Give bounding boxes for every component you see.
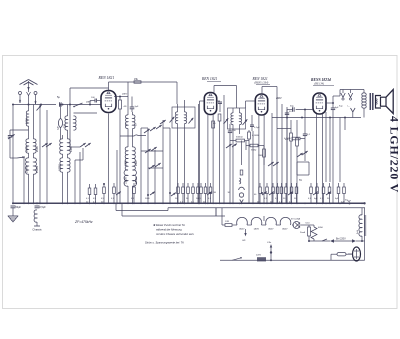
svg-text:2000: 2000 bbox=[135, 160, 138, 166]
IF transformer T2 primary bbox=[175, 104, 177, 203]
label U10 bbox=[306, 223, 311, 225]
IF transformer T2 frame bbox=[172, 107, 195, 128]
terminal A1 bbox=[19, 92, 22, 104]
svg-text:1000: 1000 bbox=[25, 146, 29, 152]
switch TA1 bbox=[226, 144, 232, 148]
heater return wire bbox=[168, 208, 365, 211]
wire x253 bbox=[252, 131, 254, 203]
svg-text:30: 30 bbox=[214, 192, 217, 194]
component cluster M bbox=[308, 183, 318, 203]
voltage selector bbox=[308, 227, 330, 242]
wire x117 bbox=[116, 150, 118, 203]
wire to V1 grid bbox=[63, 101, 101, 105]
svg-text:0,1: 0,1 bbox=[307, 134, 311, 136]
svg-text:15000: 15000 bbox=[35, 165, 39, 173]
phone jack2 bbox=[348, 90, 353, 108]
wire B+ rail bbox=[272, 117, 361, 119]
svg-text:250: 250 bbox=[64, 123, 67, 128]
tube V3 REN 1821 bbox=[255, 94, 267, 115]
svg-text:240V: 240V bbox=[85, 101, 92, 104]
note line 2 bbox=[156, 228, 182, 232]
svg-text:0,1: 0,1 bbox=[320, 198, 324, 200]
svg-text:10000: 10000 bbox=[59, 164, 62, 171]
arrow up mid bbox=[267, 242, 272, 261]
svg-text:50: 50 bbox=[289, 111, 292, 113]
wire y135 wiggle bbox=[120, 135, 146, 136]
svg-text:220V: 220V bbox=[256, 255, 262, 257]
vertical x155 bbox=[154, 150, 156, 203]
title 4 LGH/220 V bbox=[388, 116, 400, 193]
svg-text:0,1: 0,1 bbox=[275, 198, 279, 200]
note line 4 bbox=[145, 241, 184, 245]
resistor 300 bbox=[246, 141, 264, 152]
fuse oval bbox=[331, 253, 353, 261]
barretter lamp bbox=[348, 247, 361, 261]
page border frame bbox=[3, 56, 398, 309]
component cluster J bbox=[254, 183, 279, 204]
coil column2 bbox=[34, 105, 40, 204]
wire mid horizontal bbox=[141, 151, 163, 168]
component cluster C bbox=[86, 184, 97, 204]
svg-text:10000: 10000 bbox=[25, 165, 29, 173]
vertical x141 bbox=[140, 128, 142, 203]
resistor Pendl bbox=[300, 225, 311, 241]
vertical x47 bbox=[46, 110, 48, 203]
coil pair antenna lower bbox=[25, 139, 29, 203]
V3 top cap wire bbox=[262, 87, 277, 111]
coil column x67 bbox=[68, 105, 98, 204]
svg-text:1A/4V: 1A/4V bbox=[282, 228, 288, 231]
plug Bei220V bbox=[330, 238, 365, 243]
switch S4 bbox=[75, 143, 91, 203]
resistor 5000 bbox=[230, 137, 249, 148]
trimmer arrow T3a bbox=[224, 118, 229, 124]
V2 pin drops bbox=[208, 114, 215, 203]
IF transformer T3 secondary bbox=[240, 108, 242, 134]
cap 6uF bbox=[331, 103, 339, 203]
output top wire bbox=[333, 90, 364, 97]
V1 plate feedback box bbox=[128, 82, 177, 104]
series capacitor 500 bbox=[57, 95, 61, 107]
V3 cathode parts bbox=[250, 115, 260, 131]
mains switch bbox=[232, 257, 242, 260]
wire x224 bbox=[223, 95, 225, 203]
svg-text:L₂: L₂ bbox=[348, 106, 350, 108]
component cluster D bbox=[101, 183, 155, 204]
V4 plate wire bbox=[326, 96, 334, 104]
IF transformer T3 frame bbox=[228, 108, 246, 129]
ground bus bbox=[13, 202, 366, 204]
svg-text:12Ω: 12Ω bbox=[225, 221, 229, 223]
label V3 bbox=[252, 77, 271, 85]
wire x330 bbox=[329, 118, 331, 183]
cap 50 right bbox=[285, 107, 292, 203]
label V4 bbox=[311, 78, 334, 86]
coil 250 pair bbox=[59, 105, 68, 204]
IF transformer T3 primary bbox=[231, 108, 233, 203]
svg-text:während der Messung: während der Messung bbox=[156, 228, 182, 232]
cap 100 V2 bbox=[228, 124, 237, 203]
feedback box top-left bbox=[69, 88, 109, 147]
resistor 400 bbox=[285, 137, 305, 141]
svg-text:0,1: 0,1 bbox=[208, 198, 212, 200]
svg-text:1MΩ: 1MΩ bbox=[258, 155, 263, 157]
svg-text:10000: 10000 bbox=[125, 177, 128, 184]
osc coil pair bbox=[125, 97, 137, 137]
V1 cathode wire bbox=[108, 114, 110, 204]
vertical x40 bbox=[39, 105, 41, 204]
svg-text:0,1: 0,1 bbox=[86, 198, 90, 200]
heater wire segment bbox=[116, 203, 225, 216]
svg-text:Chassis: Chassis bbox=[32, 228, 42, 232]
svg-text:(RE 134): (RE 134) bbox=[314, 83, 324, 86]
wave switch S2 bbox=[17, 156, 25, 203]
capacitor 7uF V1 bbox=[130, 97, 139, 113]
component cluster G bbox=[198, 183, 212, 204]
vertical x148 bbox=[141, 128, 148, 203]
resistor 0.1M V3 bbox=[248, 130, 259, 203]
pickup box bbox=[297, 162, 309, 182]
note line 3 bbox=[156, 232, 195, 236]
cap 50uF ground bbox=[11, 202, 22, 214]
svg-text:5000: 5000 bbox=[145, 198, 150, 200]
loudspeaker horn bbox=[386, 90, 393, 114]
cap 0.1 top bbox=[303, 130, 311, 142]
svg-text:5μ: 5μ bbox=[57, 95, 60, 99]
svg-text:REN 1821: REN 1821 bbox=[252, 77, 268, 81]
wire antenna row bbox=[12, 104, 64, 106]
tube V1 REN 1821 bbox=[101, 91, 116, 113]
jack feed wire bbox=[241, 141, 243, 166]
coil 1000 antenna bbox=[25, 95, 29, 139]
component cluster E bbox=[169, 183, 199, 204]
switch U/Fz bbox=[242, 216, 264, 242]
V3 grid wire bbox=[246, 101, 256, 108]
terminal E bbox=[34, 92, 37, 105]
V4 pin drops bbox=[317, 114, 323, 203]
svg-text:1μF: 1μF bbox=[58, 126, 60, 130]
bus junction dots bbox=[12, 202, 363, 204]
wire left leg bbox=[12, 105, 14, 204]
field coil choke bbox=[357, 208, 366, 242]
svg-text:REN 1821: REN 1821 bbox=[201, 77, 217, 81]
svg-text:2000: 2000 bbox=[70, 146, 73, 152]
svg-text:U/F: U/F bbox=[242, 240, 246, 242]
switch arrows mid bbox=[268, 162, 279, 166]
switch TA2 bbox=[297, 151, 308, 157]
V4 grid wire bbox=[287, 106, 313, 204]
label REN 1821 V1 bbox=[98, 76, 115, 80]
output transformer winding bbox=[362, 93, 366, 118]
svg-text:4μF: 4μF bbox=[314, 198, 318, 200]
svg-text:(RENS 1264): (RENS 1264) bbox=[254, 82, 268, 85]
output transformer core bbox=[370, 93, 373, 110]
svg-text:50μ: 50μ bbox=[290, 106, 294, 108]
note line 1 bbox=[153, 223, 185, 227]
svg-text:20000: 20000 bbox=[135, 177, 138, 184]
wire x198 bbox=[198, 104, 200, 203]
vertical x199 bbox=[200, 101, 205, 203]
resistor 12ohm bbox=[222, 221, 237, 226]
band switch cluster bbox=[144, 125, 162, 169]
svg-text:1A/4V: 1A/4V bbox=[239, 228, 245, 231]
svg-text:L/Fz: L/Fz bbox=[267, 242, 271, 244]
component cluster O bbox=[335, 183, 345, 204]
phono jack TA bbox=[239, 170, 245, 203]
wire 200V bbox=[275, 97, 291, 203]
IF transformer T2 secondary bbox=[185, 100, 187, 203]
component cluster K bbox=[279, 183, 298, 204]
svg-text:300Ω: 300Ω bbox=[251, 150, 257, 152]
phone jack1 bbox=[339, 90, 345, 108]
resistor R1 0.1M bbox=[119, 97, 127, 204]
jack Y bbox=[351, 108, 356, 118]
V2 top cap wire bbox=[214, 86, 237, 109]
loudspeaker magnet bbox=[376, 96, 382, 109]
svg-text:RENS 1823d: RENS 1823d bbox=[311, 78, 331, 82]
svg-text:50: 50 bbox=[283, 198, 286, 200]
label REN 1821 V2 bbox=[201, 77, 221, 82]
vertical x163 bbox=[160, 120, 166, 203]
trimmer arrow T2b bbox=[189, 118, 194, 124]
vertical x170 bbox=[163, 128, 170, 203]
mains wire bottom bbox=[220, 259, 365, 261]
ground symbol bbox=[8, 214, 18, 222]
svg-text:4 LGH/220 V: 4 LGH/220 V bbox=[388, 116, 400, 193]
resistor x297 bbox=[296, 120, 299, 203]
trimmer arrow T2a bbox=[170, 117, 175, 123]
filament chain bbox=[237, 217, 291, 230]
variable capacitor C1 bbox=[8, 130, 29, 158]
tube V2 REN 1821 bbox=[204, 93, 216, 115]
label Chassis bbox=[32, 228, 42, 232]
svg-text:5000Ω: 5000Ω bbox=[236, 137, 243, 139]
resistor zigzag bbox=[309, 225, 317, 241]
svg-text:40: 40 bbox=[254, 194, 257, 196]
V3 pin drops bbox=[259, 115, 264, 204]
svg-text:4Ω: 4Ω bbox=[124, 106, 127, 108]
wire v3 right2 bbox=[276, 110, 278, 203]
switch S1 bbox=[37, 105, 42, 111]
component cluster N bbox=[320, 183, 331, 203]
right vertical bbox=[364, 208, 366, 261]
svg-text:REN 1821: REN 1821 bbox=[98, 76, 115, 80]
resistor 1M V3 bbox=[258, 146, 265, 204]
V4 grid divider bbox=[304, 110, 306, 162]
svg-text:mit dem Chassis verbunden sein: mit dem Chassis verbunden sein. bbox=[156, 232, 195, 236]
terminal A2 bbox=[27, 92, 31, 96]
wire x340 bbox=[339, 118, 341, 183]
resistor 0.1M right bbox=[284, 120, 292, 203]
tubular cap 1uF bbox=[58, 104, 63, 140]
tube V4 RENS 1823d bbox=[313, 93, 326, 114]
svg-text:Ström u. Spannungswerte bei:: Ström u. Spannungswerte bei: TA bbox=[145, 241, 184, 245]
wire v3 right1 bbox=[271, 113, 273, 203]
svg-text:U10: U10 bbox=[306, 223, 311, 225]
resistor 15k top bbox=[134, 78, 141, 83]
label 30 bbox=[214, 192, 231, 194]
osc coil stack b bbox=[133, 136, 139, 203]
svg-text:0,5: 0,5 bbox=[93, 198, 97, 200]
svg-text:ZF=475kHz: ZF=475kHz bbox=[74, 220, 93, 224]
svg-text:1000: 1000 bbox=[125, 160, 128, 166]
label 50 right bbox=[345, 200, 351, 205]
antenna bbox=[20, 80, 38, 93]
loudspeaker box bbox=[381, 97, 387, 106]
wire xfmr bottom bbox=[344, 118, 346, 131]
svg-text:1000: 1000 bbox=[25, 118, 29, 124]
svg-text:1A/4V: 1A/4V bbox=[254, 228, 260, 231]
switch on grid wire bbox=[73, 103, 82, 107]
switch S3 bbox=[42, 143, 52, 147]
svg-text:1A/4V: 1A/4V bbox=[268, 228, 274, 231]
fuse 220 bbox=[256, 255, 272, 262]
trimmer arrow T3b bbox=[243, 119, 248, 125]
svg-text:Pendl: Pendl bbox=[300, 232, 306, 234]
svg-text:0,5μF: 0,5μF bbox=[40, 206, 47, 209]
svg-text:6V 0,05A: 6V 0,05A bbox=[291, 218, 301, 221]
wire x326 bbox=[325, 112, 327, 182]
cap 0.5uF chassis bbox=[34, 202, 46, 226]
label ZF bbox=[74, 220, 93, 224]
svg-text:1μF: 1μF bbox=[135, 106, 139, 108]
V1 top cap wire bbox=[109, 82, 178, 91]
heater drop wires bbox=[216, 208, 222, 225]
svg-text:4650: 4650 bbox=[318, 227, 324, 229]
V1 plate wire bbox=[114, 93, 128, 98]
svg-text:Kop: Kop bbox=[339, 106, 343, 108]
osc coil stack a bbox=[124, 129, 128, 204]
grid capacitor 100 bbox=[89, 97, 101, 106]
V2 plate components bbox=[213, 101, 222, 203]
svg-text:2000: 2000 bbox=[35, 146, 39, 152]
svg-text:50: 50 bbox=[136, 123, 138, 126]
svg-text:0,1μF: 0,1μF bbox=[254, 127, 260, 129]
svg-text:TA: TA bbox=[299, 179, 302, 182]
svg-text:240V: 240V bbox=[121, 93, 128, 96]
svg-text:✱ Dieser Punkt muß bei TA: ✱ Dieser Punkt muß bei TA bbox=[153, 223, 185, 227]
svg-text:200V: 200V bbox=[275, 97, 282, 100]
dial lamp bbox=[291, 218, 305, 229]
svg-text:Bei 220V: Bei 220V bbox=[336, 238, 346, 241]
svg-text:50: 50 bbox=[186, 198, 189, 200]
svg-text:50μF: 50μF bbox=[16, 206, 22, 209]
